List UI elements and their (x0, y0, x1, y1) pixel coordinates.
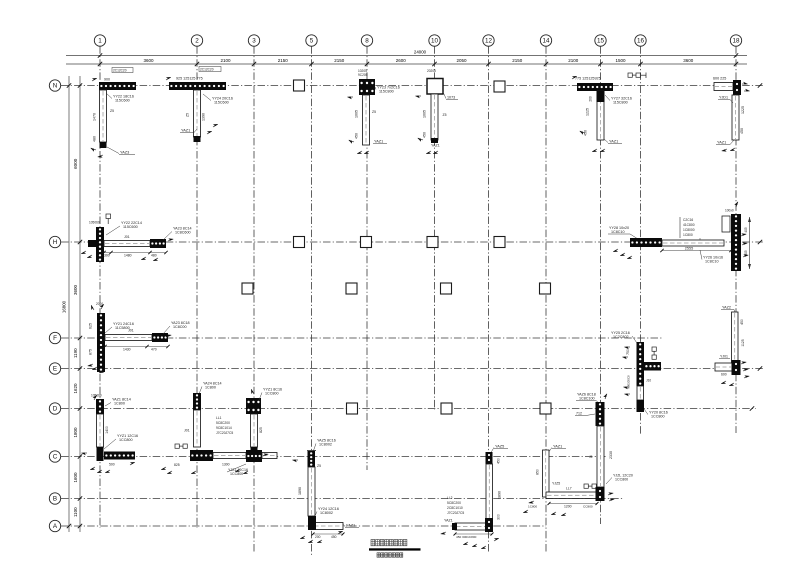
svg-text:9C8C1014: 9C8C1014 (216, 426, 232, 430)
svg-text:24000: 24000 (414, 49, 427, 54)
svg-text:YAZ3: YAZ3 (120, 151, 129, 155)
svg-text:470: 470 (151, 348, 157, 352)
svg-text:Z5: Z5 (372, 110, 376, 114)
svg-text:450: 450 (423, 132, 427, 138)
svg-text:41C800: 41C800 (683, 223, 695, 227)
svg-text:YAZ1: YAZ1 (553, 445, 562, 449)
svg-text:900: 900 (104, 78, 110, 82)
svg-text:480: 480 (151, 254, 157, 258)
svg-text:J01: J01 (184, 429, 190, 433)
svg-text:115C600: 115C600 (214, 101, 229, 105)
svg-text:1890: 1890 (298, 487, 302, 495)
svg-text:YAZ1: YAZ1 (431, 144, 440, 148)
svg-text:1CC800: 1CC800 (265, 392, 279, 396)
svg-text:YAZ1: YAZ1 (181, 129, 190, 133)
svg-text:D: D (53, 406, 58, 413)
svg-text:18: 18 (732, 38, 740, 45)
svg-text:1C800: 1C800 (205, 386, 216, 390)
svg-text:450: 450 (740, 319, 744, 325)
svg-text:925 125125 775: 925 125125 775 (176, 77, 203, 81)
svg-text:J01: J01 (124, 235, 130, 239)
svg-text:J10: J10 (646, 379, 651, 383)
svg-text:1CC800: 1CC800 (119, 438, 133, 442)
svg-text:1890: 1890 (498, 491, 502, 499)
svg-text:YJD1: YJD1 (719, 96, 728, 100)
svg-text:16: 16 (637, 38, 645, 45)
svg-text:600 225: 600 225 (713, 77, 726, 81)
svg-text:825: 825 (259, 427, 263, 433)
svg-text:1500: 1500 (615, 58, 626, 63)
svg-text:712: 712 (576, 412, 582, 416)
svg-text:200: 200 (315, 535, 321, 539)
svg-text:1C800: 1C800 (528, 505, 537, 509)
svg-text:15: 15 (597, 38, 605, 45)
svg-text:450: 450 (497, 458, 501, 464)
svg-text:1CC800: 1CC800 (230, 472, 243, 476)
svg-text:3: 3 (252, 38, 256, 45)
svg-text:1225: 1225 (741, 106, 745, 114)
svg-text:1CC800: 1CC800 (615, 478, 628, 482)
svg-text:105060: 105060 (89, 221, 100, 225)
svg-text:1C8C100: 1C8C100 (579, 397, 595, 401)
svg-text:1480: 1480 (124, 254, 132, 258)
svg-text:1190: 1190 (73, 348, 78, 358)
svg-text:1600: 1600 (73, 472, 78, 483)
svg-text:YAZ5: YAZ5 (495, 445, 504, 449)
svg-text:1005: 1005 (423, 110, 427, 118)
svg-text:2: 2 (195, 38, 199, 45)
svg-text:5C8C200: 5C8C200 (447, 501, 461, 505)
svg-text:450 3001C800: 450 3001C800 (456, 535, 477, 539)
svg-text:2050: 2050 (456, 58, 467, 63)
svg-text:8: 8 (365, 38, 369, 45)
svg-text:1CC800: 1CC800 (651, 415, 665, 419)
svg-text:1C8002: 1C8002 (319, 443, 332, 447)
svg-text:1430: 1430 (123, 348, 131, 352)
svg-text:405: 405 (744, 227, 748, 233)
svg-text:B: B (53, 496, 57, 503)
svg-text:J7C20J7C5: J7C20J7C5 (216, 431, 233, 435)
svg-text:Z5: Z5 (317, 464, 321, 468)
svg-text:1800: 1800 (73, 427, 78, 438)
svg-text:1C8000: 1C8000 (683, 228, 695, 232)
svg-text:2100: 2100 (220, 58, 231, 63)
svg-text:C2C16: C2C16 (683, 218, 693, 222)
svg-text:850: 850 (536, 469, 540, 475)
svg-text:1C8C00: 1C8C00 (173, 325, 187, 329)
svg-text:2C8C1010: 2C8C1010 (447, 506, 463, 510)
svg-text:115C800: 115C800 (379, 90, 394, 94)
svg-text:1400: 1400 (105, 426, 109, 434)
svg-text:CC800: CC800 (583, 505, 593, 509)
svg-text:750: 750 (626, 349, 630, 355)
svg-text:1470: 1470 (93, 113, 97, 121)
svg-text:115C600: 115C600 (115, 99, 130, 103)
svg-text:YAZ1: YAZ1 (346, 524, 355, 528)
svg-text:5C8C200: 5C8C200 (216, 421, 230, 425)
svg-text:1C8C600: 1C8C600 (175, 231, 191, 235)
svg-text:1125: 1125 (741, 339, 745, 346)
svg-text:1620: 1620 (73, 383, 78, 394)
svg-text:YJZ5: YJZ5 (552, 482, 560, 486)
svg-text:480: 480 (93, 136, 97, 142)
svg-text:500: 500 (109, 463, 115, 467)
svg-text:10: 10 (431, 38, 439, 45)
svg-text:2555: 2555 (685, 246, 693, 250)
svg-text:775 125125925: 775 125125925 (575, 77, 601, 81)
svg-text:LL2: LL2 (447, 496, 453, 500)
svg-text:N: N (53, 83, 58, 90)
svg-text:1225: 1225 (586, 108, 590, 116)
svg-text:6000: 6000 (73, 158, 78, 169)
svg-text:Z5: Z5 (110, 109, 114, 113)
svg-text:C: C (53, 454, 58, 461)
svg-text:2C12C20: 2C12C20 (200, 67, 214, 71)
svg-text:J5: J5 (589, 455, 593, 459)
svg-text:600205C8: 600205C8 (627, 375, 631, 389)
svg-text:1C8C10: 1C8C10 (705, 260, 719, 264)
svg-text:YAZ1: YAZ1 (717, 141, 726, 145)
svg-text:12: 12 (485, 38, 493, 45)
svg-text:450: 450 (355, 133, 359, 139)
svg-text:YAZ2: YAZ2 (722, 306, 731, 310)
svg-text:825: 825 (174, 463, 180, 467)
svg-text:2600: 2600 (396, 58, 407, 63)
svg-text:875: 875 (89, 349, 93, 355)
svg-text:1300: 1300 (222, 463, 230, 467)
svg-text:200: 200 (589, 96, 593, 102)
svg-text:2150: 2150 (334, 58, 345, 63)
svg-text:YAZ1: YAZ1 (609, 140, 618, 144)
svg-text:1: 1 (98, 38, 102, 45)
svg-text:115C600: 115C600 (123, 225, 138, 229)
svg-text:450: 450 (584, 130, 588, 136)
svg-text:20205: 20205 (427, 69, 436, 73)
svg-text:Z5: Z5 (443, 113, 447, 117)
svg-text:1005: 1005 (355, 110, 359, 118)
svg-text:9C205: 9C205 (358, 73, 368, 77)
svg-text:2150: 2150 (278, 58, 289, 63)
svg-text:Z5: Z5 (186, 113, 190, 117)
svg-text:J7C20J7C5: J7C20J7C5 (447, 511, 464, 515)
svg-text:1C2C802: 1C2C802 (613, 335, 629, 339)
svg-text:E: E (53, 366, 57, 373)
svg-text:1200: 1200 (564, 505, 572, 509)
svg-text:2330: 2330 (609, 451, 613, 459)
svg-text:3600: 3600 (683, 58, 694, 63)
svg-text:2150: 2150 (512, 58, 523, 63)
svg-text:1100: 1100 (73, 507, 78, 517)
svg-text:1390: 1390 (202, 113, 206, 121)
svg-text:16800: 16800 (62, 300, 67, 313)
svg-text:2C12C20: 2C12C20 (113, 68, 127, 72)
svg-text:600: 600 (721, 373, 727, 377)
svg-text:625: 625 (89, 323, 93, 329)
svg-text:3600: 3600 (73, 284, 78, 295)
svg-text:1C8C10: 1C8C10 (611, 230, 625, 234)
svg-text:115C800: 115C800 (613, 101, 628, 105)
svg-text:H: H (53, 239, 58, 246)
svg-text:100x0: 100x0 (725, 209, 734, 213)
svg-text:F: F (53, 335, 57, 342)
svg-text:1C8002: 1C8002 (320, 511, 333, 515)
svg-text:3600: 3600 (143, 58, 154, 63)
svg-text:1073: 1073 (447, 96, 455, 100)
svg-text:J01: J01 (128, 329, 134, 333)
svg-text:LL7: LL7 (566, 487, 572, 491)
svg-text:1C800: 1C800 (114, 402, 125, 406)
svg-text:1C800: 1C800 (683, 233, 693, 237)
svg-text:14: 14 (542, 38, 550, 45)
svg-text:5: 5 (310, 38, 314, 45)
svg-text:2100: 2100 (568, 58, 579, 63)
svg-text:LL1: LL1 (216, 416, 222, 420)
svg-text:300: 300 (497, 514, 501, 520)
svg-text:YJ01: YJ01 (720, 355, 728, 359)
svg-text:450: 450 (740, 128, 744, 134)
svg-text:YAZ1: YAZ1 (444, 519, 453, 523)
svg-text:YAZ1: YAZ1 (374, 140, 383, 144)
svg-text:450: 450 (331, 535, 337, 539)
svg-text:300: 300 (104, 254, 110, 258)
